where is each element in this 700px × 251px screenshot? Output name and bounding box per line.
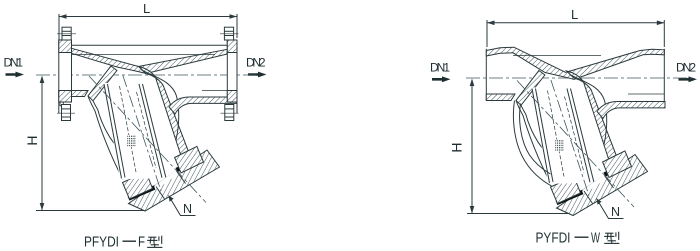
- svg-text:H: H: [24, 135, 40, 145]
- arrow DN1: [6, 72, 25, 78]
- svg-text:DN1: DN1: [430, 61, 450, 75]
- bottom right bore line: [202, 90, 237, 92]
- svg-text:W: W: [591, 230, 601, 247]
- leg assembly: [516, 71, 665, 216]
- right flange face lower edge: [236, 102, 238, 114]
- caption PYFDI-W: [536, 230, 601, 247]
- arrow DN2: [679, 76, 698, 82]
- arrow DN2: [248, 72, 267, 78]
- main centerline: [466, 77, 692, 79]
- svg-text:H: H: [449, 142, 465, 152]
- bowl inner bulge curve: [520, 104, 551, 175]
- dimension H: [467, 79, 575, 214]
- bowl outer bulge curve: [513, 101, 551, 187]
- svg-text:L: L: [571, 7, 578, 22]
- caption PFYDI-F: [84, 234, 145, 251]
- arrow DN1: [432, 76, 451, 82]
- bore silhouette line: [59, 54, 215, 56]
- svg-text:N: N: [611, 205, 620, 219]
- bottom left wall band hatched: [486, 94, 515, 101]
- left flange bottom bolt: [57, 102, 75, 121]
- svg-text:DN2: DN2: [246, 56, 266, 70]
- left flange plate: [59, 40, 72, 102]
- caption glyph 型: [604, 232, 619, 244]
- top wall band hatched: [72, 48, 228, 73]
- weld end faces: [485, 49, 487, 101]
- dimension L: [487, 20, 664, 47]
- bottom left wall band hatched: [59, 91, 88, 97]
- svg-text:PFYDI: PFYDI: [84, 234, 119, 251]
- bottom right bore line: [628, 93, 664, 95]
- left flange face lower edge: [58, 102, 60, 114]
- dimension H: [36, 76, 145, 211]
- right flange bottom bolt: [221, 105, 239, 121]
- right flange plate: [227, 40, 237, 102]
- svg-text:DN2: DN2: [676, 61, 696, 75]
- leader N: [597, 199, 624, 219]
- left flange top bolt: [57, 27, 76, 40]
- dimension L: [59, 14, 237, 42]
- body top silhouette: [70, 44, 227, 46]
- right flange top bolt: [220, 27, 239, 40]
- caption glyph 型: [147, 236, 162, 248]
- svg-text:F: F: [138, 234, 145, 251]
- svg-text:PYFDI: PYFDI: [536, 230, 571, 247]
- svg-text:N: N: [183, 202, 192, 216]
- leg assembly: [88, 66, 237, 211]
- top wall band hatched: [486, 47, 664, 79]
- svg-text:L: L: [143, 1, 150, 16]
- main centerline: [36, 74, 256, 76]
- leader N: [169, 196, 196, 216]
- svg-text:DN1: DN1: [4, 56, 24, 70]
- bore silhouette line: [513, 55, 601, 57]
